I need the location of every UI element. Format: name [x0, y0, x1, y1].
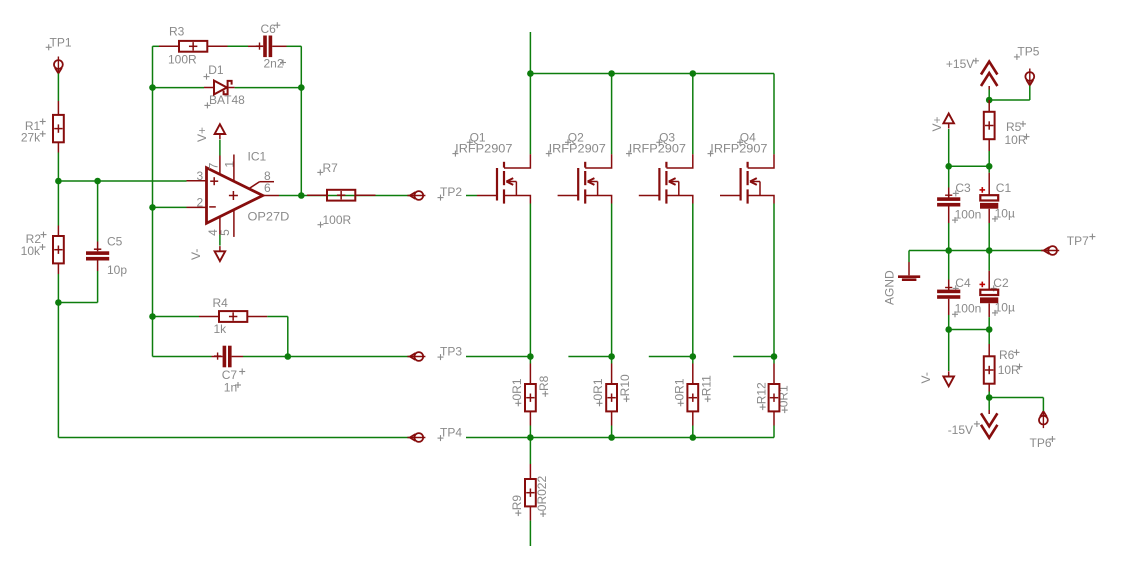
wire TP3 net segment Q3: [649, 356, 693, 358]
junction R4 left node: [149, 313, 156, 320]
wire TP3 net to Q1 source node: [466, 356, 530, 358]
wire +15V to node: [988, 90, 990, 101]
label R8 value: [510, 378, 524, 406]
label R12 value: [776, 385, 790, 413]
resistor R10 top pin: [611, 364, 613, 385]
wire to TP3: [288, 356, 410, 358]
label IC1 value OP27D: [248, 210, 290, 224]
label V- (right): [919, 372, 933, 383]
junction TP3/Q1 source: [527, 353, 534, 360]
wire V- row: [949, 329, 990, 331]
test point TP5: [1025, 69, 1034, 86]
resistor R9: [525, 479, 536, 506]
svg-text:27k: 27k: [21, 131, 41, 145]
capacitor C5 bottom pin: [97, 261, 99, 272]
wire node to C3: [948, 166, 950, 187]
label C4 value 100n: [952, 302, 981, 318]
wire node to C1: [988, 166, 990, 173]
svg-text:R9: R9: [510, 495, 524, 511]
junction V+/R5 row right: [986, 163, 993, 170]
label C7 name: [222, 368, 246, 382]
op-amp pin 2: [187, 206, 207, 208]
test point TP7: [1041, 246, 1059, 255]
wire node to R6: [988, 330, 990, 345]
resistor R4 right pin: [247, 316, 267, 318]
Q2 gate pin stub: [558, 195, 579, 197]
+15V supply symbol: [981, 62, 997, 87]
transistor Q2 IRFP2907: [578, 154, 611, 203]
op-amp pin 1: [233, 155, 235, 182]
svg-text:R8: R8: [537, 375, 551, 391]
label V+ (op-amp supply): [195, 127, 209, 142]
wire TP4 row: [466, 437, 774, 439]
wire rail to Q2 drain: [611, 74, 613, 155]
wire C4 to V- node: [948, 315, 950, 330]
wire drain rail top stub: [529, 32, 531, 74]
svg-text:TP2: TP2: [440, 185, 462, 199]
wire node to V- symbol: [948, 330, 950, 372]
label C3 value 100n: [952, 208, 981, 224]
label TP1: [46, 36, 72, 51]
junction TP3/Q2 source: [608, 353, 615, 360]
label C2 name: [991, 276, 1009, 291]
resistor R8 top pin: [529, 364, 531, 385]
wire pin 2 to feedback net: [153, 206, 187, 208]
wire R2 to lower node: [57, 274, 59, 303]
pin number 5: [218, 229, 232, 236]
capacitor C5 top pin: [94, 242, 101, 252]
+15V symbol stub: [988, 86, 990, 90]
wire node to TP5: [989, 85, 1030, 100]
label R3 value 100R: [168, 53, 197, 67]
wire R5 to C1 node: [988, 151, 990, 166]
junction TP7 row C1: [986, 247, 993, 254]
resistor R2 top pin: [57, 226, 59, 237]
wire C3 to TP7 row: [948, 223, 950, 251]
wire node to -15V symbol: [988, 398, 990, 411]
wire C5 to lower node: [58, 271, 97, 303]
wire Q2 source down: [611, 204, 613, 357]
label TP3: [438, 345, 463, 361]
Q1 gate pin: [477, 195, 497, 197]
pin number 2: [197, 195, 204, 209]
svg-text:TP3: TP3: [440, 345, 462, 359]
test point TP4: [407, 433, 425, 442]
junction TP3/Q3 source: [690, 353, 697, 360]
resistor R11 bottom pin: [692, 411, 694, 425]
wire pin 4 to V-: [219, 235, 221, 246]
wire R10 bottom to TP4 row: [611, 426, 613, 438]
label Q1 name: [467, 131, 486, 146]
label R1 value 27k: [21, 131, 46, 145]
resistor R8: [525, 384, 536, 411]
resistor R1: [53, 115, 64, 142]
junction R2/C5 lower node: [55, 299, 62, 306]
label R12 name: [754, 382, 768, 410]
svg-text:2n2: 2n2: [264, 57, 284, 71]
svg-text:100n: 100n: [955, 208, 982, 222]
wire TP2 net to Q1 gate: [466, 195, 477, 197]
label IC1 name: [248, 150, 267, 164]
label C5 value 10p: [107, 263, 127, 277]
wire Q1 source down: [529, 204, 531, 357]
label R2 name: [26, 232, 47, 246]
pin number 1: [223, 161, 237, 168]
svg-text:10R: 10R: [1005, 133, 1027, 147]
diode D1 (schottky BAT48): [204, 81, 235, 95]
capacitor C6 right pin: [272, 45, 286, 47]
svg-text:100R: 100R: [323, 213, 352, 227]
svg-text:TP7: TP7: [1067, 234, 1089, 248]
wire rail to Q3 drain: [692, 74, 694, 155]
origin cross C4 pin: [945, 284, 952, 291]
svg-text:10k: 10k: [21, 244, 41, 258]
label R8 name: [537, 375, 551, 396]
label R6 name: [999, 348, 1020, 362]
op-amp minus input mark: [209, 206, 216, 208]
wire Q4 source down: [773, 204, 775, 357]
label V- (op-amp supply): [189, 249, 203, 260]
wire node to C5 top: [97, 181, 99, 242]
svg-text:C5: C5: [107, 235, 123, 249]
label R1 name: [25, 119, 46, 134]
svg-text:0R022: 0R022: [535, 476, 549, 512]
wire node to R2: [57, 181, 59, 226]
label R7 name: [317, 161, 338, 175]
-15V symbol stub: [988, 410, 990, 414]
label Q4 value IRFP2907: [708, 142, 768, 157]
op-amp pin 8 stub: [250, 182, 275, 189]
junction rail Q3: [690, 70, 697, 77]
junction rail Q1: [527, 70, 534, 77]
label Q3 name: [656, 131, 675, 146]
resistor R7: [327, 190, 355, 201]
capacitor C3: [937, 197, 960, 206]
capacitor C3 top pin: [948, 188, 950, 198]
junction D1 left: [149, 84, 156, 91]
op-amp pin 6 output: [263, 195, 279, 197]
label TP2: [438, 185, 463, 201]
label C3 name: [953, 181, 971, 196]
svg-text:V-: V-: [919, 372, 933, 383]
resistor R1 top pin: [57, 101, 59, 115]
wire C2 to R6 node: [988, 317, 990, 329]
wire D1 row right: [235, 87, 302, 89]
wire C1 to TP7 row: [988, 223, 990, 251]
pin number 8: [264, 169, 271, 183]
transistor Q4 IRFP2907: [741, 154, 774, 203]
label R10 value: [591, 378, 605, 406]
capacitor C7 left pin: [212, 356, 223, 358]
wire TP1 to R1: [57, 73, 59, 101]
wire R11 bottom to TP4 row: [692, 426, 694, 438]
label D1 name: [204, 63, 224, 79]
label R9 name: [510, 495, 524, 516]
wire R3 row left: [153, 45, 160, 47]
capacitor C5: [86, 251, 109, 260]
V- supply symbol (right): [943, 371, 954, 386]
label C6 value 2n2: [264, 57, 287, 71]
resistor R11: [687, 384, 698, 411]
transistor Q1 IRFP2907: [497, 154, 530, 203]
wire left TP4 limb: [58, 303, 409, 438]
label R11 value: [672, 378, 686, 406]
junction V- row left: [945, 326, 952, 333]
svg-text:C6: C6: [261, 22, 277, 36]
label Q2 name: [565, 131, 584, 146]
junction TP4/R10: [608, 434, 615, 441]
op-amp pin 3: [187, 180, 207, 182]
svg-text:10R: 10R: [998, 363, 1020, 377]
resistor R6: [984, 356, 995, 383]
svg-text:C1: C1: [996, 181, 1012, 195]
pin number 7: [207, 162, 221, 169]
label C5 name: [107, 235, 123, 249]
wire node to TP6: [989, 398, 1043, 412]
wire node to R8 top: [529, 357, 531, 364]
label R4 name: [213, 296, 229, 310]
test point TP2: [407, 191, 425, 200]
resistor R12: [769, 384, 780, 411]
wire rail to Q1 drain: [529, 74, 531, 155]
wire TP3 net segment Q4: [733, 356, 774, 358]
wire C6 to right feedback corner: [287, 46, 302, 195]
wire V+ to pin 7: [219, 140, 221, 156]
svg-text:AGND: AGND: [883, 270, 897, 305]
pin number 4: [206, 229, 220, 236]
svg-text:1n: 1n: [224, 381, 237, 395]
wire R1 to node row: [57, 153, 59, 182]
resistor R10 bottom pin: [611, 411, 613, 425]
resistor R6 top pin: [988, 344, 990, 356]
capacitor C6 left pin: [248, 45, 263, 47]
label R10 name: [618, 374, 632, 402]
pin number 6: [264, 181, 271, 195]
wire TP3 net segment Q2: [568, 356, 611, 358]
test point TP1: [54, 57, 63, 74]
wire C7 to junction: [243, 356, 288, 358]
wire TP7 row: [909, 250, 1044, 252]
label R5 value 10R: [1005, 133, 1030, 147]
wire node row to op-amp pin 3: [58, 180, 186, 182]
junction C5 top node: [94, 178, 101, 185]
capacitor C2 bottom pin: [988, 303, 990, 317]
capacitor C2 (polarized 10u): [980, 282, 999, 304]
capacitor C4 bottom pin: [948, 299, 950, 315]
-15V supply symbol: [981, 413, 997, 438]
wire output to TP2: [279, 195, 410, 197]
op-amp pin 5: [233, 210, 235, 237]
svg-text:TP5: TP5: [1017, 45, 1039, 59]
capacitor C7: [223, 346, 232, 368]
wire left vertical feedback net: [152, 46, 154, 356]
resistor R2 bottom pin: [57, 263, 59, 274]
label Q4 name: [737, 131, 756, 146]
svg-text:IRFP2907: IRFP2907: [549, 142, 607, 156]
op-amp pin 4 (V-): [219, 217, 221, 234]
Q4 gate pin stub: [720, 195, 741, 197]
wire R4 right to corner: [267, 317, 288, 357]
test point TP6: [1039, 411, 1048, 428]
junction TP3/Q4 source: [771, 353, 778, 360]
junction TP4/R11: [690, 434, 697, 441]
resistor R7 right pin: [355, 194, 375, 196]
junction V- row right: [986, 326, 993, 333]
label R5 name: [1006, 120, 1026, 134]
label D1 value BAT48: [204, 93, 245, 108]
resistor R5: [984, 112, 995, 139]
svg-text:10µ: 10µ: [995, 300, 1015, 314]
svg-text:R5: R5: [1006, 120, 1022, 134]
svg-text:1k: 1k: [214, 322, 228, 336]
AGND pin: [908, 262, 910, 275]
resistor R12 bottom pin: [773, 411, 775, 425]
wire D1 row left: [153, 87, 205, 89]
label R4 value 1k: [214, 322, 228, 336]
wire C7 row left: [153, 356, 212, 358]
svg-text:7: 7: [207, 162, 221, 169]
wire to AGND: [908, 251, 910, 263]
junction pin 2 node: [149, 204, 156, 211]
transistor Q3 IRFP2907: [659, 154, 692, 203]
svg-text:0R1: 0R1: [591, 378, 605, 400]
resistor R3 right pin: [207, 45, 227, 47]
resistor R10: [606, 384, 617, 411]
junction TP7 row C3: [945, 247, 952, 254]
capacitor C4: [937, 290, 960, 299]
wire TP4 to R9: [529, 438, 531, 465]
label C7 value 1n: [224, 381, 241, 395]
svg-text:V+: V+: [195, 127, 209, 142]
ground AGND symbol: [898, 277, 920, 280]
svg-text:10p: 10p: [107, 263, 127, 277]
capacitor C2 top pin: [988, 271, 990, 290]
wire R12 bottom to TP4 row: [773, 426, 775, 438]
wire R4 row left: [153, 316, 200, 318]
svg-text:TP4: TP4: [440, 426, 462, 440]
label -15V: [948, 421, 980, 437]
svg-text:V+: V+: [930, 116, 944, 131]
resistor R8 bottom pin: [529, 411, 531, 425]
resistor R11 top pin: [692, 364, 694, 385]
label C1 value 10u: [992, 206, 1015, 222]
op-amp IC1 triangle: [207, 168, 263, 224]
svg-text:IC1: IC1: [248, 150, 267, 164]
svg-text:TP1: TP1: [50, 36, 72, 50]
label R11 name: [699, 375, 713, 402]
resistor R12 top pin: [773, 364, 775, 385]
junction R1/R2 node: [55, 178, 62, 185]
resistor R4: [219, 311, 247, 322]
junction V+/R5 row left: [945, 163, 952, 170]
Q3 gate pin stub: [639, 195, 660, 197]
wire V+ row: [949, 165, 990, 167]
capacitor C3 bottom pin: [948, 207, 950, 224]
label C2 value 10u: [992, 300, 1015, 316]
junction D1 right: [298, 84, 305, 91]
svg-text:TP6: TP6: [1030, 436, 1052, 450]
junction C7/R4 right node: [285, 353, 292, 360]
resistor R4 left pin: [199, 316, 219, 318]
wire rail to Q4 drain: [773, 74, 775, 155]
op-amp pin 7 (V+): [219, 156, 221, 175]
op-amp origin cross: [229, 191, 238, 200]
capacitor C7 right pin: [232, 356, 243, 358]
resistor R3: [179, 41, 207, 52]
origin cross C6 pin: [256, 43, 263, 50]
label R6 value 10R: [998, 363, 1023, 377]
svg-text:+15V: +15V: [946, 57, 974, 71]
wire TP7 row to C2: [988, 251, 990, 271]
wire node to R10 top: [611, 357, 613, 364]
label V+ (right): [930, 116, 944, 131]
origin cross C7 pin: [214, 353, 221, 360]
svg-text:100n: 100n: [955, 302, 982, 316]
label C1 name: [996, 181, 1012, 195]
svg-text:100R: 100R: [168, 53, 197, 67]
wire TP7 row to C4: [948, 251, 950, 280]
svg-text:IRFP2907: IRFP2907: [629, 142, 687, 156]
label AGND: [883, 270, 897, 305]
op-amp plus input mark: [210, 177, 218, 185]
svg-text:10µ: 10µ: [995, 206, 1015, 220]
label +15V: [946, 57, 979, 71]
junction rail Q2: [608, 70, 615, 77]
resistor R3 left pin: [159, 45, 179, 47]
test point TP3: [407, 352, 425, 361]
svg-text:R6: R6: [999, 348, 1015, 362]
resistor R7 left pin: [307, 194, 327, 196]
resistor R2: [53, 236, 64, 263]
svg-text:D1: D1: [208, 63, 224, 77]
label TP4: [438, 426, 463, 442]
junction +15V node: [986, 97, 993, 104]
label C4 name: [953, 276, 971, 291]
svg-text:V-: V-: [189, 249, 203, 260]
V- supply symbol (op-amp): [215, 246, 226, 261]
V+ supply symbol (right): [943, 114, 954, 129]
label R7 value 100R: [318, 213, 352, 228]
label Q3 value IRFP2907: [626, 142, 686, 157]
wire node to R12 top: [773, 357, 775, 364]
label TP6: [1030, 436, 1056, 450]
label R3 name: [169, 25, 185, 39]
wire R9 bottom stub: [529, 521, 531, 546]
svg-text:R11: R11: [699, 375, 713, 396]
junction -15V node: [986, 394, 993, 401]
svg-text:R10: R10: [618, 374, 632, 396]
resistor R6 bottom pin: [988, 384, 990, 392]
resistor R5 bottom pin: [988, 139, 990, 151]
capacitor C1 top pin: [988, 173, 990, 195]
label TP7: [1067, 234, 1096, 248]
wire R6 to -15V node: [988, 392, 990, 398]
resistor R5 top pin: [988, 100, 990, 112]
wire R3 to C6: [228, 45, 249, 47]
wire V+ symbol to node: [948, 129, 950, 166]
svg-text:0R1: 0R1: [510, 378, 524, 400]
origin cross C3 pin: [945, 192, 952, 199]
junction output/feedback: [298, 192, 305, 199]
wire Q3 source down: [692, 204, 694, 357]
svg-text:0R1: 0R1: [672, 378, 686, 400]
label TP5: [1014, 45, 1040, 60]
pin number 3: [197, 169, 204, 183]
svg-text:R12: R12: [754, 382, 768, 404]
capacitor C6: [263, 36, 272, 58]
resistor R9 top pin: [529, 464, 531, 479]
V+ supply symbol (op-amp): [215, 124, 226, 139]
